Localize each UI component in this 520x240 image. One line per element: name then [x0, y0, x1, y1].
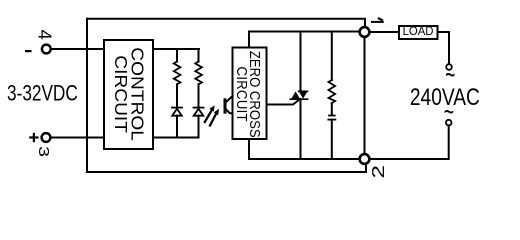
opto light arrow 1: [205, 105, 215, 122]
top inner rail: [249, 31, 360, 33]
label plus: [29, 133, 38, 142]
wire R2 to LED D2: [198, 84, 200, 107]
phototransistor emitter: [225, 109, 232, 114]
resistor R2 lead down: [198, 49, 200, 62]
svg-text:CONTROLCIRCUIT: CONTROLCIRCUIT: [111, 47, 146, 141]
outer SSR box top edge: [87, 19, 365, 27]
diode D1 cathode bar: [172, 107, 182, 109]
svg-text:2: 2: [368, 165, 388, 179]
triac gate wire: [267, 99, 301, 105]
AC terminal T2 circle: [446, 120, 452, 126]
triac TR1 main vertical upper: [300, 32, 302, 92]
wire R3 to capacitor C1: [331, 103, 333, 115]
junction terminal 1 circle: [360, 27, 370, 37]
wire terminal3 to control box: [51, 137, 104, 139]
wire load box to AC terminal T1: [438, 32, 450, 64]
load box: [399, 26, 438, 39]
label minus: [25, 50, 32, 52]
outer SSR box left edge: [86, 19, 88, 172]
wire zero cross box top stub: [248, 32, 250, 48]
capacitor C1 top plate: [329, 115, 335, 117]
opto light arrow 2: [210, 109, 219, 126]
snubber wire top: [331, 32, 333, 81]
wire R1 to diode D1: [176, 84, 178, 107]
phototransistor Q1 base bar: [224, 100, 227, 112]
triac TR1 down triangle: [299, 91, 308, 98]
bottom inner rail: [249, 158, 360, 160]
svg-text:~: ~: [444, 98, 454, 129]
diode D1 triangle: [172, 109, 182, 116]
outer SSR box right edge: [364, 37, 366, 155]
triac TR1 bottom bar: [290, 98, 307, 100]
wire control box to resistor rail: [153, 48, 199, 50]
capacitor C1 bottom plate: [328, 119, 335, 121]
wire D2 to bottom wire: [198, 116, 200, 138]
wire D1 to bottom rail: [176, 116, 178, 138]
resistor R1: [174, 62, 181, 85]
svg-text:3-32VDC: 3-32VDC: [7, 82, 78, 106]
snubber resistor R3: [329, 80, 336, 103]
resistor R2: [195, 62, 202, 85]
terminal 4 circle: [42, 45, 51, 54]
wire zero cross box bottom stub: [248, 139, 250, 159]
wire C1 to bottom rail: [331, 120, 333, 159]
zero cross circuit box U2: [233, 48, 267, 140]
phototransistor collector: [225, 96, 232, 103]
bottom wire control box to LED: [153, 137, 199, 139]
AC terminal T1 circle: [446, 64, 452, 70]
terminal 3 circle: [42, 133, 51, 142]
triac TR1 main vertical lower: [300, 99, 302, 159]
wire terminal4 to control box: [51, 48, 104, 50]
label 1: [371, 18, 384, 22]
wire T2 to terminal 2: [370, 125, 449, 159]
triac TR1 up triangle: [291, 91, 300, 98]
LED D2 cathode bar: [194, 107, 204, 109]
resistor R1 lead down: [176, 49, 178, 62]
junction terminal 2 circle: [360, 154, 370, 164]
svg-text:3: 3: [36, 146, 53, 157]
outer SSR box bottom edge: [87, 164, 366, 172]
wire terminal1 to load box: [370, 31, 400, 33]
control circuit box U1: [104, 40, 153, 149]
LED D2 triangle: [194, 109, 204, 116]
svg-text:4: 4: [35, 30, 56, 40]
triac TR1 top bar: [299, 90, 308, 92]
svg-text:LOAD: LOAD: [403, 25, 434, 38]
